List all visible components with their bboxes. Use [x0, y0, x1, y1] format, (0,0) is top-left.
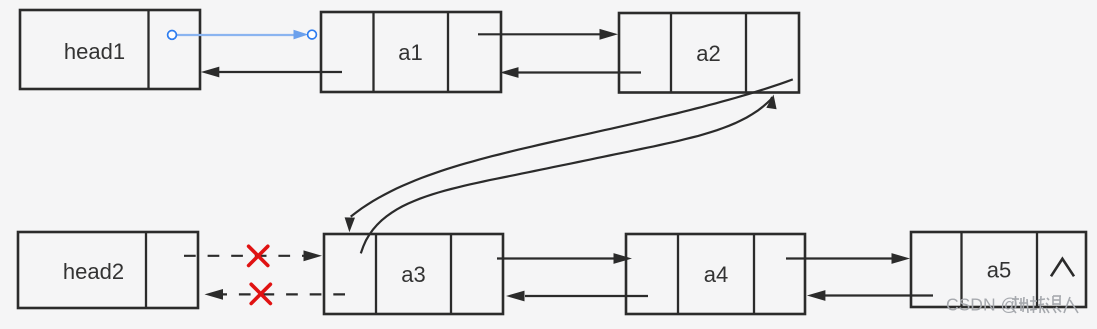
svg-text:head1: head1	[64, 39, 125, 64]
svg-text:a1: a1	[398, 40, 422, 65]
svg-text:CSDN @: CSDN @	[946, 295, 1018, 315]
svg-text:head2: head2	[63, 259, 124, 284]
svg-text:a3: a3	[401, 262, 425, 287]
svg-text:a4: a4	[704, 262, 728, 287]
svg-text:a5: a5	[987, 258, 1011, 283]
svg-text:a2: a2	[696, 41, 720, 66]
